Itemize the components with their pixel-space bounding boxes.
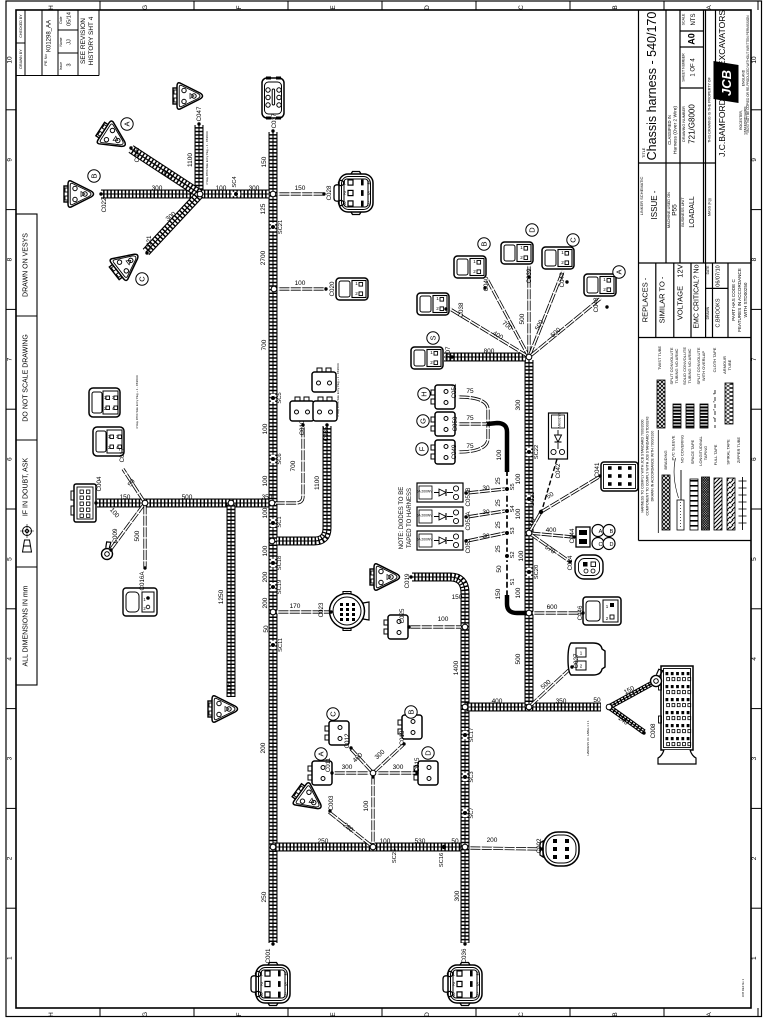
- balloon A: [121, 118, 133, 130]
- svg-text:E: E: [330, 1012, 337, 1017]
- wire branch C028: [278, 192, 324, 195]
- svg-text:MACHINE USED ON: MACHINE USED ON: [667, 192, 671, 228]
- svg-text:ISSUE -: ISSUE -: [650, 190, 659, 219]
- connector C028: [334, 172, 373, 215]
- balloon G: [417, 415, 429, 427]
- svg-text:C: C: [518, 5, 525, 10]
- wire loop C051: [458, 397, 488, 424]
- svg-text:SIMILAR TO -: SIMILAR TO -: [658, 276, 667, 323]
- svg-text:200: 200: [260, 742, 267, 753]
- svg-text:ZIPPER TUBE: ZIPPER TUBE: [736, 437, 741, 463]
- svg-text:250: 250: [261, 891, 268, 902]
- splice: [527, 448, 531, 456]
- node C020 tee: [271, 286, 277, 292]
- svg-text:300: 300: [393, 764, 404, 771]
- svg-text:C: C: [138, 276, 147, 282]
- svg-text:NO COVERING: NO COVERING: [680, 435, 685, 463]
- terminal dot: [540, 847, 543, 850]
- svg-text:A: A: [706, 1012, 713, 1017]
- svg-text:THIS DRAWING IS THE PROPERTY O: THIS DRAWING IS THE PROPERTY OF: [708, 76, 712, 142]
- svg-text:JCB: JCB: [719, 70, 734, 96]
- svg-text:200: 200: [262, 571, 269, 582]
- svg-text:DRAWING NUMBER: DRAWING NUMBER: [682, 106, 686, 142]
- svg-text:SC11: SC11: [278, 638, 284, 652]
- wire branch C002: [469, 848, 541, 849]
- svg-text:12V: 12V: [676, 264, 685, 277]
- terminal dot: [328, 809, 331, 812]
- svg-text:JJ: JJ: [67, 39, 73, 45]
- wire branch C014: [529, 533, 569, 561]
- svg-text:25: 25: [495, 521, 502, 529]
- svg-text:3: 3: [452, 993, 455, 999]
- wire branch C044: [529, 533, 573, 537]
- svg-text:C051: C051: [451, 383, 458, 398]
- svg-text:2: 2: [452, 982, 455, 988]
- terminal dot: [271, 942, 274, 945]
- balloon C: [567, 234, 579, 246]
- svg-text:DRAWN BY: DRAWN BY: [19, 49, 23, 69]
- svg-text:4: 4: [751, 657, 758, 661]
- svg-text:SC23: SC23: [530, 492, 536, 507]
- svg-text:1 OF 4: 1 OF 4: [691, 58, 697, 77]
- svg-text:150: 150: [495, 588, 502, 599]
- svg-text:100: 100: [515, 508, 522, 519]
- wire branch C017: [123, 469, 145, 503]
- connector C004: [71, 484, 96, 522]
- splice: [463, 809, 467, 817]
- terminal dot: [402, 742, 405, 745]
- svg-text:E: E: [330, 5, 337, 10]
- svg-text:B: B: [610, 529, 614, 535]
- wire cross link lower: [273, 843, 465, 852]
- svg-text:75: 75: [466, 388, 474, 395]
- svg-text:C050: C050: [452, 416, 459, 431]
- svg-text:WITH STD00250: WITH STD00250: [743, 282, 748, 317]
- svg-text:1: 1: [452, 972, 455, 978]
- svg-text:COMPONENT TO COMPLY WITH JCB S: COMPONENT TO COMPLY WITH JCB STANDARD ST…: [646, 416, 650, 515]
- terminal dot: [565, 280, 568, 283]
- svg-text:C028: C028: [326, 185, 333, 200]
- wire cross link mid: [465, 703, 601, 712]
- splice: [271, 559, 275, 567]
- svg-text:300: 300: [454, 890, 461, 901]
- svg-text:05/14: 05/14: [67, 12, 73, 26]
- svg-text:G: G: [142, 5, 149, 10]
- connector C041: [601, 462, 638, 491]
- title block frame: [639, 10, 752, 541]
- wire branch C021: [146, 194, 200, 252]
- svg-text:C009: C009: [112, 528, 119, 543]
- svg-text:K01298_AA: K01298_AA: [47, 20, 53, 52]
- svg-text:5: 5: [367, 191, 370, 197]
- terminal dot: [464, 515, 467, 518]
- svg-text:SC16: SC16: [439, 853, 445, 868]
- wire branch C009: [111, 503, 145, 549]
- svg-text:1: 1: [7, 956, 14, 960]
- svg-text:B: B: [612, 1012, 619, 1016]
- svg-text:BUSINESS UNIT: BUSINESS UNIT: [681, 197, 685, 227]
- svg-text:S4: S4: [510, 505, 516, 513]
- terminal dot: [330, 771, 333, 774]
- svg-text:50: 50: [263, 625, 270, 633]
- svg-text:B: B: [612, 5, 619, 9]
- svg-text:DRAWN: DRAWN: [706, 306, 710, 319]
- wire branch C013: [373, 745, 403, 773]
- connector C037: [262, 77, 284, 120]
- svg-text:C.BROOKS: C.BROOKS: [716, 298, 722, 327]
- svg-text:8: 8: [751, 257, 758, 261]
- svg-text:6A 200WV: 6A 200WV: [416, 514, 433, 518]
- svg-text:1: 1: [343, 181, 346, 187]
- svg-text:*: *: [713, 392, 715, 397]
- svg-text:7: 7: [7, 357, 14, 361]
- node trunk join: [269, 500, 275, 506]
- node star upper-left: [197, 191, 203, 197]
- svg-text:SHEET NUMBER: SHEET NUMBER: [682, 53, 686, 82]
- svg-text:C021: C021: [146, 235, 153, 250]
- wire branch C010: [276, 426, 303, 503]
- balloon C: [327, 708, 339, 720]
- svg-text:H: H: [420, 391, 429, 396]
- svg-text:BRAIDING: BRAIDING: [663, 450, 668, 469]
- wire branch C007: [444, 353, 526, 362]
- connector C046: [583, 597, 621, 625]
- svg-text:530: 530: [415, 838, 426, 845]
- svg-text:C016A: C016A: [139, 571, 146, 591]
- svg-text:6A 200WV: 6A 200WV: [416, 538, 433, 542]
- terminal dot: [197, 122, 200, 125]
- svg-text:25: 25: [495, 477, 502, 485]
- svg-text:SC17: SC17: [469, 728, 475, 743]
- svg-text:ALL DIMENSIONS IN mm: ALL DIMENSIONS IN mm: [23, 585, 30, 666]
- wire branch C003: [329, 812, 373, 847]
- terminal dot: [598, 474, 601, 477]
- svg-text:C025: C025: [399, 608, 406, 623]
- connector C001: [251, 963, 290, 1006]
- svg-text:6: 6: [751, 457, 758, 461]
- svg-text:500: 500: [515, 653, 522, 664]
- connector C020: [336, 278, 368, 300]
- svg-text:800: 800: [484, 348, 495, 355]
- svg-text:SC18: SC18: [277, 556, 283, 571]
- svg-text:F: F: [236, 1012, 243, 1016]
- diode assembly C053B: [416, 483, 463, 502]
- svg-text:S2: S2: [510, 551, 516, 558]
- wire branch C016A: [143, 503, 146, 567]
- splice: [463, 731, 467, 739]
- svg-text:HISTORY SHT 4: HISTORY SHT 4: [88, 16, 95, 65]
- legend sample armour tube: [725, 383, 733, 424]
- svg-text:350: 350: [262, 494, 273, 501]
- wire branch C027: [529, 668, 571, 707]
- revision history block: [16, 10, 99, 76]
- terminal dot: [145, 251, 148, 254]
- svg-text:MASS (Kg): MASS (Kg): [708, 198, 712, 216]
- svg-text:100: 100: [216, 185, 227, 192]
- svg-text:A: A: [317, 751, 326, 756]
- svg-text:150: 150: [295, 185, 306, 192]
- legend sample full tape: [714, 478, 722, 530]
- svg-text:1100: 1100: [314, 476, 321, 490]
- svg-text:C010: C010: [299, 420, 306, 435]
- terminal dot: [109, 548, 112, 551]
- connector C025: [384, 615, 408, 639]
- connector C007: [411, 347, 443, 369]
- svg-text:1: 1: [260, 972, 263, 978]
- connector C021: [106, 245, 145, 284]
- svg-text:LOADALL: LOADALL: [689, 196, 696, 228]
- svg-text:C008: C008: [650, 723, 657, 738]
- svg-text:8: 8: [7, 257, 14, 261]
- svg-text:A: A: [599, 529, 603, 535]
- wire branch C043: [529, 271, 563, 357]
- connector C044: [576, 525, 615, 550]
- splice: [271, 394, 275, 402]
- connector C035: [313, 397, 337, 421]
- svg-text:300: 300: [515, 399, 522, 410]
- third angle projection symbol: [20, 524, 34, 552]
- svg-text:6: 6: [284, 993, 287, 999]
- svg-text:DATE: DATE: [706, 265, 710, 275]
- wire full tape elbow lower: [507, 595, 526, 613]
- svg-text:FEATURES IN ACCORDANCE: FEATURES IN ACCORDANCE: [737, 268, 742, 332]
- svg-text:125: 125: [260, 203, 267, 214]
- svg-text:DRAWN ON VESYS: DRAWN ON VESYS: [23, 233, 30, 297]
- svg-text:C: C: [569, 237, 578, 243]
- svg-text:TUBING NO ARMC: TUBING NO ARMC: [687, 348, 692, 383]
- svg-text:DO NOT SCALE DRAWING: DO NOT SCALE DRAWING: [23, 334, 30, 422]
- svg-text:100: 100: [496, 449, 503, 460]
- svg-text:06/07/10: 06/07/10: [716, 265, 722, 286]
- diode assembly C053: [416, 531, 463, 550]
- wire loop C049: [458, 424, 488, 452]
- svg-text:4: 4: [476, 972, 479, 978]
- svg-text:F: F: [418, 446, 427, 451]
- svg-text:1100: 1100: [187, 153, 194, 167]
- svg-text:100: 100: [515, 587, 522, 598]
- svg-text:7: 7: [751, 357, 758, 361]
- splice: [527, 495, 531, 503]
- svg-text:G: G: [142, 1012, 149, 1017]
- terminal dot: [301, 423, 304, 426]
- balloon F: [416, 443, 428, 455]
- terminal dot: [581, 611, 584, 614]
- svg-text:6A 200WV: 6A 200WV: [557, 412, 561, 429]
- connector C019: [370, 564, 400, 590]
- svg-text:SCALE: SCALE: [682, 13, 686, 25]
- svg-text:30: 30: [482, 533, 490, 540]
- connector C022: [64, 181, 94, 207]
- svg-text:Date: Date: [59, 16, 63, 23]
- splice S3: [505, 529, 509, 537]
- svg-text:C002: C002: [536, 838, 543, 853]
- wire splice line S1-S5: [506, 470, 508, 598]
- wire branch C039: [527, 265, 530, 357]
- svg-text:Harness (Over 2 Wire): Harness (Over 2 Wire): [673, 106, 679, 154]
- node right mid: [526, 530, 532, 536]
- connector C010: [290, 397, 314, 421]
- node cross trunk3 low: [462, 844, 468, 850]
- svg-text:NTS: NTS: [691, 14, 697, 26]
- balloon D: [526, 224, 538, 236]
- svg-text:600: 600: [547, 604, 558, 611]
- svg-text:5: 5: [476, 982, 479, 988]
- svg-text:3: 3: [751, 756, 758, 760]
- terminal dot: [570, 665, 573, 668]
- svg-text:C: C: [599, 542, 603, 548]
- svg-text:4: 4: [7, 657, 14, 661]
- svg-text:C045: C045: [134, 147, 141, 162]
- svg-text:SC20: SC20: [534, 565, 540, 580]
- svg-text:SC6: SC6: [277, 453, 283, 464]
- svg-text:9: 9: [7, 158, 14, 162]
- svg-text:TAPED TO HARNESS: TAPED TO HARNESS: [407, 488, 413, 548]
- svg-text:C053A: C053A: [465, 511, 472, 531]
- svg-text:C027: C027: [573, 653, 580, 668]
- svg-text:500: 500: [519, 313, 526, 324]
- svg-text:EMC CRITICAL?: EMC CRITICAL?: [694, 275, 701, 328]
- legend sample space tape: [690, 479, 698, 530]
- svg-text:500: 500: [182, 494, 193, 501]
- wire trunk C019-C036: [412, 577, 465, 943]
- balloon A: [315, 748, 327, 760]
- wire branch C035: [277, 426, 327, 541]
- wire loop C050: [458, 422, 488, 425]
- node trunk/SC4: [270, 191, 276, 197]
- svg-text:C012: C012: [344, 733, 351, 748]
- svg-text:10: 10: [7, 56, 14, 64]
- terminal dot: [568, 560, 571, 563]
- svg-text:5: 5: [284, 982, 287, 988]
- svg-text:500: 500: [134, 530, 141, 541]
- connector C047: [173, 83, 203, 109]
- connector C049: [431, 440, 455, 464]
- wire trunk to C006: [227, 503, 236, 697]
- node cross trunk3: [462, 704, 468, 710]
- wire branch C048: [529, 298, 601, 357]
- node C008 fork: [606, 704, 612, 710]
- svg-text:J.C.BAMFORD: J.C.BAMFORD: [717, 99, 727, 157]
- svg-text:ROCESTER,: ROCESTER,: [739, 110, 743, 130]
- svg-text:200: 200: [262, 597, 269, 608]
- ring terminal near C008: [647, 668, 668, 688]
- connector C015: [414, 761, 438, 785]
- svg-text:C001: C001: [265, 948, 272, 963]
- diode assembly C042: [549, 412, 568, 459]
- balloon C: [136, 273, 148, 285]
- svg-text:* MUST NOT BE COPIED OR RE-PRO: * MUST NOT BE COPIED OR RE-PRODUCED WITH…: [746, 15, 750, 135]
- balloon H: [418, 388, 430, 400]
- connector C036: [443, 963, 482, 1006]
- svg-text:SC22: SC22: [534, 445, 540, 460]
- connector C003: [289, 780, 328, 819]
- svg-text:H: H: [48, 5, 55, 10]
- svg-text:30: 30: [482, 509, 490, 516]
- svg-text:700: 700: [290, 460, 297, 471]
- svg-text:5: 5: [7, 557, 14, 561]
- svg-text:3: 3: [343, 202, 346, 208]
- splice: [271, 641, 275, 649]
- svg-text:H: H: [48, 1012, 55, 1017]
- svg-text:SPACE TAPE: SPACE TAPE: [690, 439, 695, 464]
- svg-text:10: 10: [751, 56, 758, 64]
- terminal dot: [349, 746, 352, 749]
- wire branch diode C053B: [467, 489, 505, 493]
- connector C051: [431, 385, 455, 409]
- wire branch C041: [529, 477, 599, 533]
- svg-text:5: 5: [751, 557, 758, 561]
- wire branch C022 to trunk: [101, 190, 269, 199]
- svg-text:50: 50: [496, 565, 503, 573]
- connector C008: [658, 666, 696, 764]
- svg-text:300: 300: [342, 764, 353, 771]
- svg-text:SC19: SC19: [277, 580, 283, 595]
- wire armour branch lower C008: [609, 707, 644, 732]
- terminal dot: [483, 286, 486, 289]
- connector C017 mating: [89, 388, 120, 417]
- svg-text:CLASSIFIED IN: CLASSIFIED IN: [667, 115, 672, 145]
- node C025 join: [462, 624, 468, 630]
- svg-text:300: 300: [152, 185, 163, 192]
- balloon D: [422, 747, 434, 759]
- svg-text:NOTE: DIODES TO BE: NOTE: DIODES TO BE: [399, 487, 405, 549]
- svg-text:2: 2: [260, 982, 263, 988]
- svg-text:4 Way DT06 Side Entry Plug + 1: 4 Way DT06 Side Entry Plug + 1 - P/N/XXX: [135, 375, 139, 429]
- connector C002: [540, 832, 579, 866]
- svg-text:C019: C019: [404, 573, 411, 588]
- legend sample spiral tape: [727, 478, 735, 530]
- svg-text:100: 100: [262, 507, 269, 518]
- svg-text:A: A: [706, 5, 713, 10]
- grid reference right strip: [751, 56, 762, 960]
- svg-text:C038: C038: [458, 302, 465, 317]
- svg-text:100: 100: [363, 800, 370, 811]
- terminal dot: [99, 192, 102, 195]
- node star lower: [370, 770, 376, 776]
- svg-text:SC7: SC7: [469, 807, 475, 818]
- connector C006: [208, 696, 238, 722]
- svg-text:VOLTAGE: VOLTAGE: [676, 286, 685, 320]
- node right low: [526, 610, 532, 616]
- svg-text:C043: C043: [559, 272, 566, 287]
- legend sample twist tube: [657, 380, 665, 428]
- svg-text:SC5: SC5: [277, 392, 283, 403]
- svg-text:100: 100: [518, 550, 525, 561]
- svg-text:170: 170: [290, 603, 301, 610]
- svg-text:3 Way DT06 Side Entry Plug + 1: 3 Way DT06 Side Entry Plug + 1 - P/N/XXX: [205, 131, 209, 185]
- svg-text:C037: C037: [271, 113, 278, 128]
- svg-text:*: *: [713, 416, 715, 421]
- wire branch C011: [334, 771, 369, 774]
- legend sample pvc sleeve: [677, 500, 684, 530]
- svg-text:50: 50: [451, 838, 459, 845]
- wire branch C046: [533, 611, 581, 614]
- svg-text:B: B: [480, 241, 489, 246]
- svg-text:100: 100: [262, 545, 269, 556]
- wire full tape elbow: [487, 423, 507, 472]
- terminal dot: [329, 610, 332, 613]
- node C041 join: [539, 510, 543, 514]
- wire branch C004 run: [97, 499, 269, 508]
- splice: [527, 568, 531, 576]
- wire branch C012: [351, 749, 373, 773]
- svg-text:Name: Name: [59, 37, 63, 46]
- svg-text:100: 100: [515, 473, 522, 484]
- terminal dot: [143, 566, 146, 569]
- terminal dot: [94, 501, 97, 504]
- svg-text:100: 100: [262, 423, 269, 434]
- svg-text:SC25: SC25: [392, 849, 398, 864]
